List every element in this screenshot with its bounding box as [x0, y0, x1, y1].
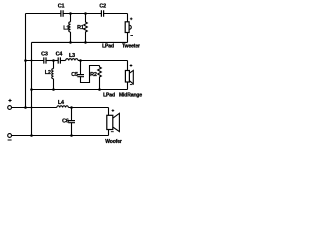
capacitor C3 — [44, 57, 46, 63]
inductor L4 — [57, 106, 69, 108]
resistor R2 — [98, 66, 102, 90]
svg-text:R2: R2 — [90, 72, 97, 78]
wire tweeter return stub — [127, 33, 129, 43]
resistor R1 — [84, 14, 88, 43]
wire midrange return stub — [127, 82, 129, 90]
svg-text:L2: L2 — [45, 70, 51, 76]
wire midrange bottom rail — [32, 89, 128, 91]
wire plus rail — [25, 14, 27, 108]
svg-text:C3: C3 — [41, 51, 48, 57]
wire woofer return stub — [108, 130, 110, 136]
speaker Woofer — [107, 113, 120, 131]
wire midrange feed down — [127, 61, 129, 71]
svg-text:Woofer: Woofer — [105, 139, 122, 145]
wire minus rail — [31, 42, 33, 135]
wire C6 bottom — [71, 123, 73, 136]
wire C3 to C4 — [46, 60, 58, 62]
terminal input minus — [8, 134, 12, 140]
capacitor C6 — [68, 121, 75, 123]
speaker MidRange — [125, 70, 133, 84]
capacitor C5 — [77, 75, 84, 77]
wire C2 to tweeter corner — [104, 13, 128, 15]
svg-text:R1: R1 — [77, 25, 84, 31]
terminal input plus — [8, 99, 12, 110]
svg-text:Tweeter: Tweeter — [122, 44, 140, 50]
inductor L3 — [66, 59, 78, 61]
wire tweeter feed down — [127, 14, 129, 22]
svg-text:LPad: LPad — [103, 93, 115, 99]
wire tweeter bottom rail — [32, 41, 128, 43]
svg-text:LPad: LPad — [102, 44, 114, 50]
svg-text:MidRange: MidRange — [119, 93, 142, 99]
polarity marks woofer — [111, 109, 114, 131]
speaker Tweeter — [125, 22, 131, 33]
wire C4 to L3 — [60, 60, 65, 62]
inductor L1 — [69, 14, 71, 43]
polarity marks tweeter — [130, 18, 133, 36]
wire woofer feed down — [108, 108, 110, 116]
svg-text:L1: L1 — [63, 25, 69, 31]
svg-text:C2: C2 — [99, 4, 106, 10]
wire L3 to midrange corner — [78, 60, 128, 62]
wire C1 to C2 — [63, 13, 101, 15]
svg-text:C4: C4 — [56, 52, 63, 58]
svg-text:C1: C1 — [58, 4, 65, 10]
inductor L2 — [52, 61, 54, 90]
svg-text:C6: C6 — [62, 118, 69, 124]
polarity marks midrange — [130, 64, 133, 84]
capacitor C1 — [61, 10, 63, 16]
svg-text:C5: C5 — [71, 72, 78, 78]
wire plus input feed — [12, 107, 57, 109]
wire C6 branch — [71, 108, 73, 121]
wire C5 branch from node — [80, 61, 82, 75]
svg-text:L3: L3 — [69, 53, 75, 59]
wire L4 to woofer corner — [68, 107, 108, 109]
wire C5 bottom routing — [81, 66, 100, 83]
wire top rail tweeter feed — [26, 13, 61, 15]
svg-text:L4: L4 — [58, 100, 64, 106]
capacitor C4 — [58, 57, 60, 63]
wire midrange feed — [26, 60, 44, 62]
capacitor C2 — [101, 10, 103, 16]
wire minus input feed — [12, 135, 109, 137]
node junction dots — [24, 12, 101, 137]
